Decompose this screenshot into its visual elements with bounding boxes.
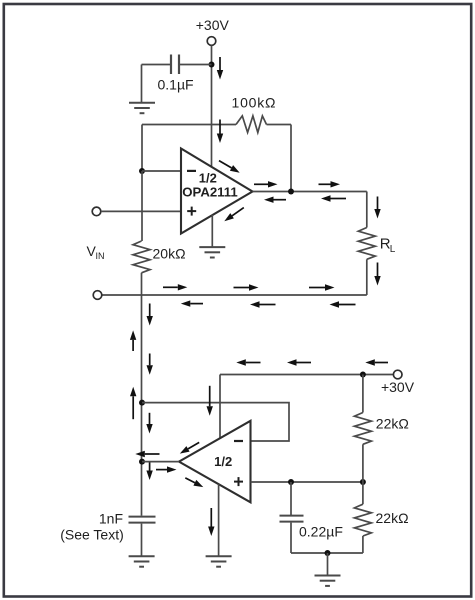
- svg-text:+30V: +30V: [381, 379, 415, 395]
- svg-text:0.22µF: 0.22µF: [299, 523, 343, 539]
- svg-text:IN: IN: [96, 251, 105, 261]
- svg-text:L: L: [390, 244, 396, 255]
- svg-text:22kΩ: 22kΩ: [376, 510, 409, 526]
- svg-text:(See Text): (See Text): [60, 527, 124, 543]
- svg-text:1nF: 1nF: [99, 511, 123, 527]
- svg-text:1/2: 1/2: [199, 170, 217, 185]
- svg-text:1/2: 1/2: [214, 454, 232, 469]
- svg-text:22kΩ: 22kΩ: [376, 416, 409, 432]
- svg-text:20kΩ: 20kΩ: [153, 245, 186, 261]
- svg-text:OPA2111: OPA2111: [182, 185, 237, 200]
- svg-text:100kΩ: 100kΩ: [232, 95, 277, 111]
- svg-text:0.1µF: 0.1µF: [158, 76, 194, 92]
- svg-text:+30V: +30V: [196, 17, 230, 33]
